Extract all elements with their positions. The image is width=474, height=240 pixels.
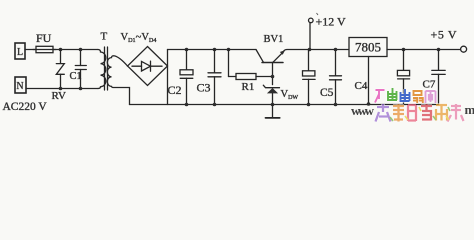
fuse FU (36, 46, 53, 52)
svg-text:C4: C4 (355, 80, 368, 92)
capacitor C3 (214, 50, 216, 73)
svg-text:L: L (17, 47, 23, 58)
positive rail (168, 49, 257, 51)
node RV bottom (59, 87, 63, 91)
7805 output wire (387, 49, 461, 51)
transistor BV1 collector (256, 50, 264, 63)
+12V terminal (309, 23, 311, 50)
svg-text:+5 V: +5 V (431, 28, 458, 42)
svg-text:7805: 7805 (355, 40, 381, 55)
transformer T primary winding (98, 50, 106, 89)
svg-text:C2: C2 (168, 83, 182, 97)
svg-text:FU: FU (36, 31, 52, 45)
svg-text:AC220 V: AC220 V (3, 101, 48, 113)
regulator 7805 (349, 38, 387, 57)
zener diode VDW (263, 85, 279, 88)
transformer core (105, 47, 108, 90)
transistor BV1 emitter (273, 52, 283, 62)
bridge rectifier VD1-VD4 (128, 47, 168, 86)
ground symbol (272, 105, 274, 118)
node C6 top (402, 48, 406, 52)
node C3 top (213, 48, 217, 52)
transistor BV1 bar (262, 62, 283, 64)
watermark row 2: www + colored glyphs + m (351, 102, 474, 118)
+5V terminal (461, 46, 467, 52)
svg-text:C7: C7 (423, 79, 436, 91)
terminal L (15, 43, 25, 59)
wire N to transformer bottom (26, 88, 98, 90)
scan speck (317, 13, 319, 15)
node R1 base junction (271, 75, 275, 79)
capacitor C7 (438, 50, 440, 71)
node C2 top (185, 48, 189, 52)
transformer secondary winding (107, 56, 129, 105)
positive rail riser (167, 50, 169, 105)
node C1 top (79, 48, 83, 52)
svg-text:m: m (465, 102, 474, 117)
node RV top (59, 48, 63, 52)
svg-text:RV: RV (52, 90, 66, 102)
node C7 top (437, 48, 441, 52)
capacitor C5 (335, 50, 337, 76)
transistor base lead (272, 63, 274, 85)
svg-text:C5: C5 (320, 87, 334, 99)
svg-text:+12 V: +12 V (316, 15, 347, 29)
node C1 bottom (79, 87, 83, 91)
ground rail (130, 104, 439, 106)
bridge diode (132, 65, 142, 67)
svg-text:C3: C3 (197, 81, 211, 95)
svg-text:BV1: BV1 (264, 34, 284, 45)
wire L to transformer top (25, 49, 98, 51)
capacitor C6 electrolytic (403, 50, 405, 71)
capacitor C2 electrolytic (186, 50, 188, 70)
svg-text:www: www (351, 103, 375, 118)
svg-text:R1: R1 (242, 81, 255, 93)
resistor R1 (228, 50, 230, 77)
capacitor C4 electrolytic (308, 50, 310, 71)
terminal N (15, 77, 26, 93)
varistor RV (60, 50, 62, 64)
svg-text:T: T (101, 31, 108, 43)
node R1 top (227, 48, 231, 52)
watermark row 1: five colored glyphs (375, 88, 436, 103)
7805 ground pin (368, 57, 370, 105)
svg-text:C1: C1 (70, 71, 82, 82)
capacitor C1 (80, 50, 82, 66)
svg-text:N: N (16, 81, 23, 92)
